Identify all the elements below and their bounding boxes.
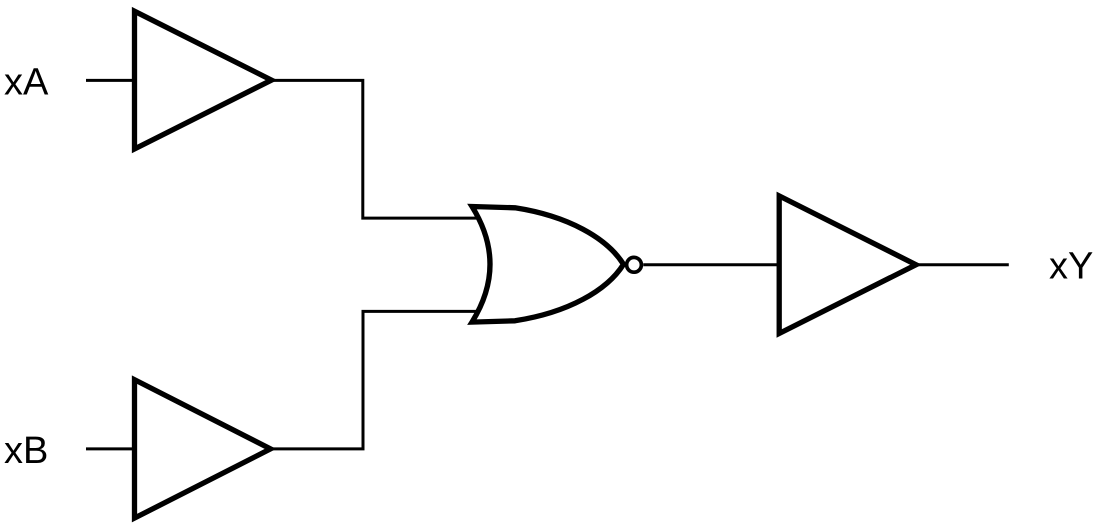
wire NOR output to buffer-Y input	[643, 263, 781, 266]
wire xB input	[86, 447, 137, 450]
NOR output bubble	[627, 257, 642, 272]
svg-text:xB: xB	[4, 430, 48, 472]
buffer B	[135, 380, 271, 518]
wire xY output	[915, 263, 1009, 266]
svg-text:xY: xY	[1049, 246, 1093, 288]
wire buffer-B output to NOR bottom input	[269, 311, 484, 449]
NOR gate	[472, 207, 624, 323]
wire buffer-A output to NOR top input	[270, 80, 484, 218]
wire xA input	[86, 79, 137, 82]
buffer A	[135, 11, 272, 149]
buffer Y	[779, 196, 916, 334]
svg-text:xA: xA	[4, 61, 49, 103]
